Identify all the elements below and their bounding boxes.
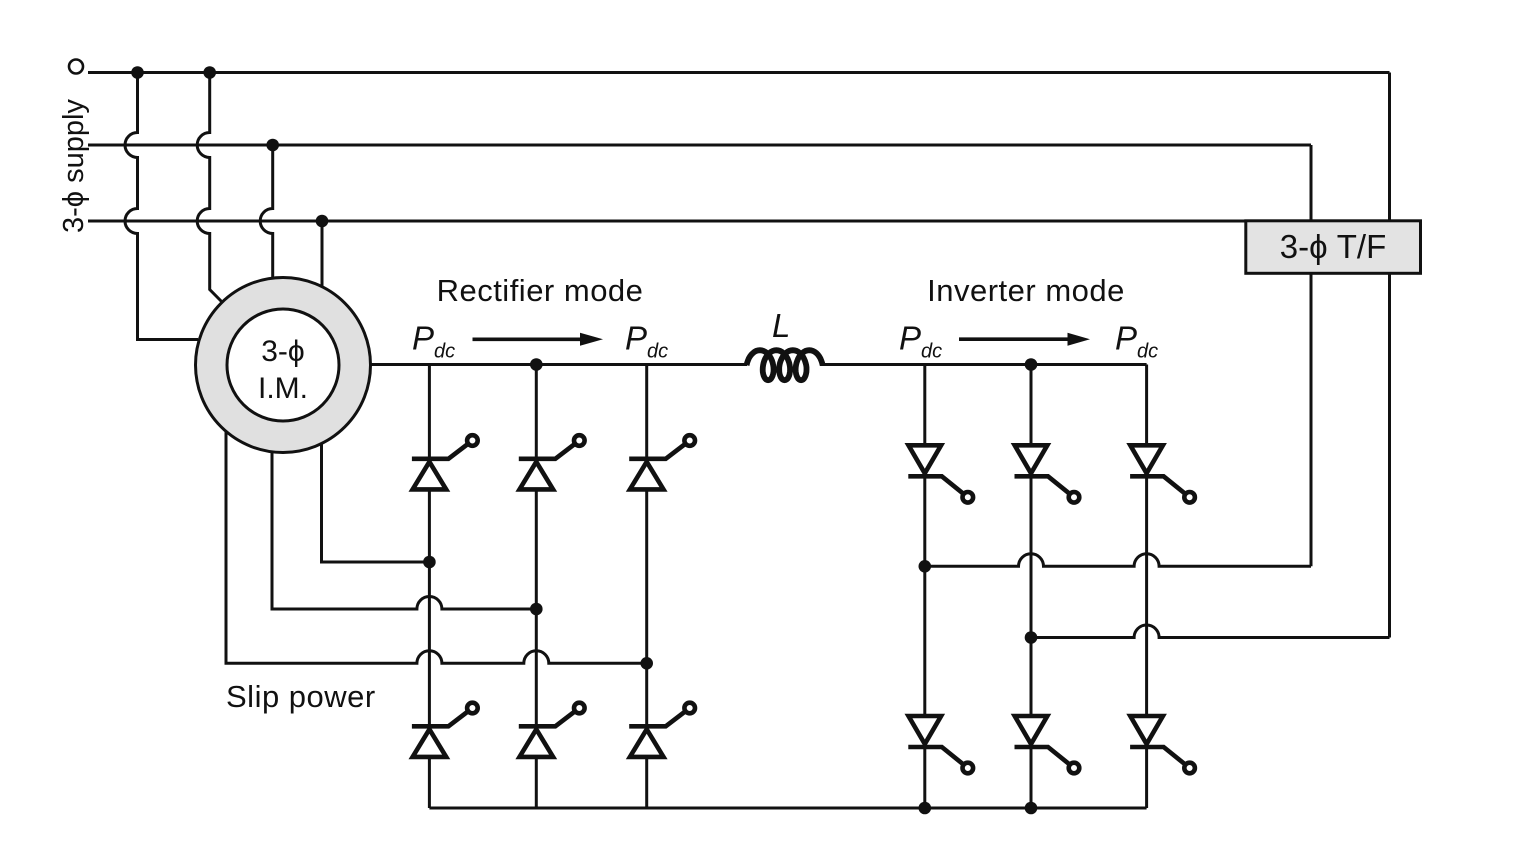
wire inverter leg 1 [923, 365, 926, 809]
junction node line1-dropA [131, 66, 144, 79]
wire rotor lead 3 to rectifier leg1 [322, 440, 430, 562]
wire dc bus right (inductor to inverter) [820, 363, 1147, 366]
wire supply line 3 [88, 220, 1247, 223]
junction node line2-dropC [266, 139, 279, 152]
junction node rotor3-leg1 [423, 556, 436, 569]
thyristor rectifier bottom T4 [413, 729, 447, 757]
junction node bottom bus inverter leg2 [1025, 802, 1038, 815]
junction node inverter leg2 to T/F [1025, 631, 1038, 644]
wire drop B from line1 to motor [197, 73, 225, 306]
arrow rectifier power flow [473, 337, 583, 341]
wire rotor lead 1 to rectifier leg3 [226, 428, 647, 663]
junction node rotor1-leg3 [640, 657, 653, 670]
thyristor rectifier bottom T5 [520, 729, 554, 757]
wire drop C from line2 to motor top [260, 145, 273, 280]
svg-text:Inverter mode: Inverter mode [927, 273, 1125, 308]
transformer 3-phi T/F box [1246, 221, 1421, 273]
thyristor inverter bottom T11 [1015, 716, 1048, 744]
wire inverter leg 2 [1030, 365, 1033, 809]
arrow inverter power flow [959, 337, 1069, 341]
junction node rotor2-leg2 [530, 603, 543, 616]
thyristor rectifier top T3 [630, 462, 664, 490]
wire bottom dc bus [429, 807, 1146, 810]
wire right vertical from line1 to inverter row2 [1388, 73, 1391, 638]
wire inverter node A to transformer [925, 554, 1311, 567]
wire rectifier leg 2 [535, 365, 538, 809]
junction node bottom bus inverter leg1 [919, 802, 932, 815]
wire rotor lead 2 to rectifier leg2 [272, 448, 536, 609]
inductor L [747, 350, 823, 380]
thyristor inverter top T9 [1130, 445, 1163, 473]
svg-text:3-ϕ T/F: 3-ϕ T/F [1280, 228, 1386, 265]
thyristor inverter bottom T12 [1130, 716, 1163, 744]
svg-text:Slip power: Slip power [226, 679, 376, 714]
wire supply line 1 [88, 71, 1390, 74]
svg-text:I.M.: I.M. [258, 372, 308, 405]
wire inverter leg 3 [1145, 365, 1148, 809]
junction node dc bus inverter leg2 [1025, 358, 1038, 371]
wire rectifier leg 3 [645, 365, 648, 809]
wire inverter node B to transformer [1031, 625, 1390, 638]
wire right vertical from line2 to inverter row1 [1310, 145, 1313, 566]
wire dc bus left (motor to inductor) [370, 363, 747, 366]
thyristor rectifier top T1 [413, 462, 447, 490]
wire drop A from line1 to motor left [125, 73, 198, 340]
svg-text:Rectifier mode: Rectifier mode [437, 273, 644, 308]
wire drop D from line3 to motor top [321, 221, 324, 288]
wire rectifier leg 1 [428, 365, 431, 809]
svg-text:3-ϕ: 3-ϕ [261, 335, 304, 368]
junction node line1-dropB [203, 66, 216, 79]
thyristor inverter top T8 [1015, 445, 1048, 473]
junction node dc bus rectifier leg2 [530, 358, 543, 371]
svg-text:3-ϕ supply: 3-ϕ supply [58, 99, 90, 233]
junction node line3-dropD [316, 215, 329, 228]
motor inner [227, 309, 339, 421]
thyristor rectifier top T2 [520, 462, 554, 490]
thyristor rectifier bottom T6 [630, 729, 664, 757]
terminal circle supply line 1 [69, 60, 83, 74]
thyristor inverter top T7 [909, 445, 942, 473]
motor 3-phi I.M. outer [196, 278, 371, 453]
thyristor inverter bottom T10 [909, 716, 942, 744]
junction node inverter leg1 to T/F [919, 560, 932, 573]
svg-text:L: L [772, 307, 790, 344]
wire supply line 2 [88, 144, 1311, 147]
